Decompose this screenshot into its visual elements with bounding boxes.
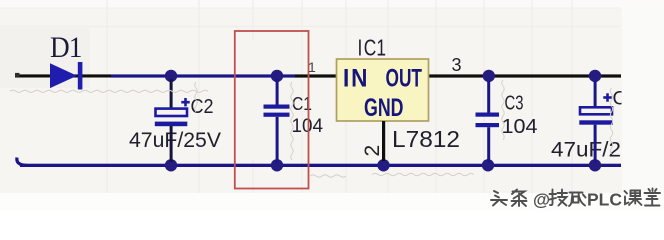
成 — [569, 193, 586, 207]
wire: AC input to diode anode (black) — [15, 73, 111, 78]
node: bottom rail / C3 junction — [482, 159, 494, 171]
capacitor C1 (104) — [264, 79, 290, 162]
技 — [550, 190, 568, 206]
头 — [492, 192, 508, 207]
成 — [570, 194, 587, 208]
堂 — [646, 190, 662, 207]
堂 — [645, 189, 661, 206]
svg-text:PLC: PLC — [587, 190, 622, 210]
svg-text:L7812: L7812 — [392, 126, 460, 152]
capacitor C3 (104) — [476, 81, 500, 163]
条 — [513, 191, 528, 208]
node: bottom rail / GND junction — [377, 159, 389, 171]
svg-text:I C1: I C1 — [358, 35, 387, 61]
svg-text:47uF/25V: 47uF/25V — [129, 128, 222, 152]
node: OUT rail / C3 junction — [483, 70, 495, 82]
课 — [625, 191, 642, 206]
svg-text:GND: GND — [364, 94, 404, 122]
wavy artifact right of C4 — [610, 88, 612, 154]
wire: top rail navy segment (diode to IC) — [111, 74, 295, 77]
技 — [551, 191, 569, 207]
条 — [512, 190, 527, 207]
annotation: red highlight box around C1 — [235, 31, 309, 189]
svg-text:104: 104 — [292, 115, 324, 137]
wire: bottom rail (navy) — [17, 158, 621, 168]
regulator IC1 (L7812) body — [337, 59, 429, 121]
node: bottom rail / C2 junction — [165, 159, 177, 171]
wavy artifact right of pin 3 — [502, 80, 504, 140]
wire: GND pin stub (black) — [382, 121, 385, 161]
label C4 (cropped C) — [613, 89, 627, 110]
svg-text:I N: I N — [343, 64, 368, 92]
node: top rail / C2 junction — [165, 70, 177, 82]
svg-text:OUT: OUT — [386, 64, 423, 92]
svg-text:C2: C2 — [191, 96, 214, 118]
wavy artifact left of C1 — [291, 82, 293, 160]
node: top rail / C1 junction — [271, 70, 283, 82]
capacitor C2 (electrolytic 47uF/25V) — [155, 79, 190, 162]
svg-text:3: 3 — [452, 55, 462, 75]
capacitor C4 (electrolytic 47uF, partly cropped) — [579, 81, 613, 162]
node: bottom rail / C1 junction — [271, 159, 283, 171]
wavy artifact right of red box bottom — [310, 175, 346, 177]
diode D1 — [50, 62, 82, 90]
svg-text:104: 104 — [502, 116, 538, 138]
node: bottom rail / C4 junction — [589, 159, 601, 171]
wire: IC IN pin stub (black) — [295, 74, 337, 77]
svg-text:D1: D1 — [50, 31, 82, 64]
wavy artifact under D1 wire — [10, 90, 208, 92]
svg-text:1: 1 — [308, 59, 316, 75]
课 — [626, 192, 643, 207]
node: OUT rail / C4 junction — [589, 70, 601, 82]
watermark 头条@技成PLC课堂 — [492, 190, 661, 211]
wavy artifact under bottom rail near GND — [372, 173, 474, 175]
头 — [491, 191, 507, 206]
svg-text:@: @ — [533, 190, 550, 210]
wire: top rail right of IC (black) — [428, 74, 621, 77]
wavy artifact right of C2 — [195, 82, 197, 112]
svg-text:2: 2 — [361, 145, 384, 157]
svg-text:C3: C3 — [505, 93, 524, 115]
